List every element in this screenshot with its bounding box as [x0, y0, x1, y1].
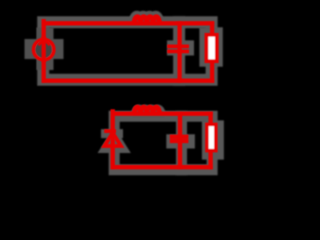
gray shadow layer, top circuit wires	[43, 22, 211, 79]
wire: top edge left of inductor	[113, 111, 211, 115]
gray shadow: diode D1	[106, 134, 123, 149]
diode D1: cathode bar + triangle	[104, 131, 121, 146]
wire: right branch	[210, 23, 214, 80]
current source I1: circle with gray interior	[34, 39, 54, 59]
current source I1: arrow (shaft + barbs)	[39, 37, 50, 63]
gray halo cross around current source I1	[25, 28, 64, 71]
wire: left branch through source	[42, 21, 46, 80]
wire: capacitor branch vertical	[178, 114, 182, 168]
gray shadow: top resistor R1	[206, 34, 216, 60]
inductor L2 (bottom): 4 overlapping bumps	[134, 107, 159, 114]
gray shadow: bottom capacitor C2 plates	[171, 139, 190, 143]
wire shadow: capacitor branch	[176, 116, 187, 170]
wire: bottom edge	[113, 165, 211, 169]
wire shadow: capacitor branch	[173, 22, 185, 79]
wire: left branch through diode	[110, 112, 114, 168]
wire: capacitor branch vertical	[177, 23, 181, 80]
resistor R1 (top): white box	[206, 35, 216, 61]
resistor R2 (bottom): white box	[207, 124, 216, 150]
gray shadow: top capacitor C1 plates	[172, 45, 189, 50]
red layer, bottom circuit wires	[113, 112, 211, 168]
capacitor C2 (bottom): plates	[170, 137, 189, 141]
wire: bottom edge	[44, 79, 212, 83]
gray shadow layer, bottom circuit wires	[114, 116, 212, 170]
capacitor C1 (top): plates	[167, 46, 189, 51]
wire shadow: outer loop	[43, 22, 211, 79]
red layer, top circuit wires	[44, 21, 212, 80]
wire: right branch	[208, 114, 212, 168]
gray shadow: bottom inductor L2	[136, 110, 161, 117]
wire shadow: outer loop	[114, 116, 212, 170]
wire: top edge left of inductor	[44, 21, 212, 25]
gray shadow: bottom resistor R2	[208, 127, 217, 153]
gray shadow: top inductor L1	[134, 16, 159, 23]
inductor L1 (top): 4 overlapping bumps	[134, 17, 159, 24]
